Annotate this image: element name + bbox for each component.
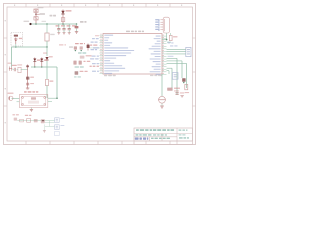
wire long vertical from regulator xyxy=(46,47,48,56)
junction at regulator net xyxy=(46,46,48,48)
module inner detail xyxy=(31,97,36,99)
preamp transistor Q1 xyxy=(12,98,20,100)
frame row ticks right xyxy=(193,37,196,39)
wire cluster to U1 xyxy=(90,47,100,49)
left outside net labels xyxy=(92,38,95,39)
power rail wire xyxy=(31,23,78,25)
text row2 xyxy=(75,66,79,67)
wire to connectors xyxy=(45,121,54,123)
capacitor C9 xyxy=(80,56,85,59)
wire power input vertical xyxy=(35,9,37,25)
drawing frame outer border xyxy=(4,4,196,145)
capacitor C8 xyxy=(13,68,15,71)
inline resistor R3 xyxy=(45,80,48,86)
LED D2 xyxy=(34,58,36,67)
ground right cluster xyxy=(180,95,183,97)
wire net vertical left xyxy=(11,47,13,67)
resistor R9 pullup xyxy=(169,35,172,40)
capacitor xyxy=(63,24,65,29)
U1 right pin rows xyxy=(162,35,167,37)
module inner frame xyxy=(21,96,45,105)
capacitor C4 polarized xyxy=(76,24,78,26)
junction rail at F1 xyxy=(35,23,37,25)
resistor R10 xyxy=(167,88,172,91)
regulator rect component xyxy=(46,24,48,33)
frame row numbers xyxy=(5,20,6,21)
frame row ticks left xyxy=(4,37,8,39)
module mounting holes xyxy=(22,97,24,99)
net label VCC mid xyxy=(75,43,79,44)
net labels J2 xyxy=(168,42,171,43)
sensor module MOD1 outline xyxy=(19,95,47,108)
USB connector J1 body xyxy=(163,17,169,33)
U1 value text below xyxy=(104,75,107,76)
frame column ticks top xyxy=(25,4,27,8)
frame column ticks bottom xyxy=(25,141,27,145)
J1 pin stubs and labels xyxy=(160,19,163,21)
transistor Q3 xyxy=(75,71,79,75)
small connector below MCU xyxy=(172,73,178,80)
value text xyxy=(83,61,85,62)
resistor R4 xyxy=(18,67,21,72)
ground xyxy=(57,32,60,34)
battery symbol xyxy=(14,35,18,37)
sheet text xyxy=(179,137,183,138)
junction rail right xyxy=(76,23,78,25)
diode D1 xyxy=(62,10,64,25)
ground under module xyxy=(30,108,32,110)
net label VIN xyxy=(50,15,53,17)
connector J2 body xyxy=(186,47,191,56)
title block outline xyxy=(134,128,193,145)
transistor Q5 xyxy=(41,119,45,123)
resistor R12 xyxy=(20,119,24,122)
gray label left xyxy=(69,46,73,47)
resistor R11 xyxy=(185,84,188,89)
net label right 3 xyxy=(168,56,174,57)
connector J3 xyxy=(55,118,60,123)
capacitor C11 xyxy=(34,119,38,122)
ground under C4 xyxy=(75,31,78,33)
drawing frame inner border xyxy=(7,7,193,141)
rev row2 text xyxy=(179,134,182,135)
wire LED net down xyxy=(56,67,58,98)
text right cluster xyxy=(185,92,190,93)
wire from bottom pin xyxy=(161,74,163,96)
ground small xyxy=(26,87,29,89)
pin1 label xyxy=(95,35,99,36)
module name text xyxy=(24,91,27,92)
wire under LEDs xyxy=(31,66,57,68)
net label near regulator xyxy=(42,21,47,22)
junction rail left xyxy=(29,23,31,25)
fuse F1 xyxy=(34,9,38,12)
title text xyxy=(136,129,139,131)
net label SCL xyxy=(91,49,95,50)
connector J5 small box xyxy=(55,131,60,135)
wire net horizontal top xyxy=(12,46,48,48)
switch S1 xyxy=(34,17,38,20)
capacitor xyxy=(58,24,60,29)
CadSoft EAGLE logo xyxy=(135,138,139,140)
diode D5 xyxy=(87,44,89,51)
resistor R8 block xyxy=(79,61,82,65)
ground xyxy=(68,32,71,34)
wire row xyxy=(12,69,14,71)
ground under SP1 xyxy=(161,103,163,106)
ground xyxy=(63,32,66,34)
junction rail at D1 xyxy=(62,23,64,25)
wire right bus 1 xyxy=(167,57,178,59)
wire right bus 3 xyxy=(167,62,187,64)
net label SDA xyxy=(91,42,94,43)
resistor R7 block xyxy=(73,61,76,65)
capacitor designator text row xyxy=(56,25,60,26)
resistor R6 xyxy=(80,46,83,49)
diode pair vertical xyxy=(27,65,29,89)
wire regulator to net xyxy=(46,41,48,47)
microcontroller U1 outline xyxy=(103,34,162,75)
resistor R5 xyxy=(74,46,77,49)
U1 left pin rows xyxy=(100,34,104,36)
wire nested corner 2 xyxy=(167,70,170,72)
ground bottom chain xyxy=(43,124,45,130)
module right pins xyxy=(48,97,57,99)
value text row xyxy=(78,52,82,53)
document number text xyxy=(136,134,139,135)
rev text xyxy=(179,130,182,131)
speaker SP1 xyxy=(159,96,166,103)
power input label xyxy=(38,7,44,8)
battery dashed box xyxy=(11,33,23,47)
wire battery to net xyxy=(15,44,17,47)
net label left of rail xyxy=(24,21,30,22)
inline diode D4 xyxy=(45,57,48,60)
net name on wire xyxy=(59,44,63,45)
wires to J2 xyxy=(167,48,186,50)
LED D3 xyxy=(41,58,43,67)
microphone MK1 xyxy=(9,67,11,71)
net label VCC xyxy=(80,21,84,23)
frame column letters xyxy=(14,5,15,6)
U1 part name text xyxy=(126,31,130,32)
connector J4 xyxy=(55,125,60,130)
junction with label xyxy=(35,14,36,15)
connector pad P1 xyxy=(14,118,17,121)
inductor L1 xyxy=(61,18,64,22)
capacitor xyxy=(68,24,70,29)
wire USB to MCU pin xyxy=(162,39,167,41)
diode D1 value text xyxy=(66,10,72,11)
wire right bus 2 xyxy=(167,60,183,62)
transistor Q2 area xyxy=(26,77,29,80)
wire chain xyxy=(17,120,54,122)
date text xyxy=(151,138,154,139)
wire nested corner 1 xyxy=(167,67,173,69)
capacitor C10 xyxy=(175,92,178,94)
junction rail at reg xyxy=(46,23,48,25)
module left pins xyxy=(17,101,20,103)
transistor Q4 xyxy=(182,78,185,82)
resistor R13 xyxy=(27,119,31,123)
